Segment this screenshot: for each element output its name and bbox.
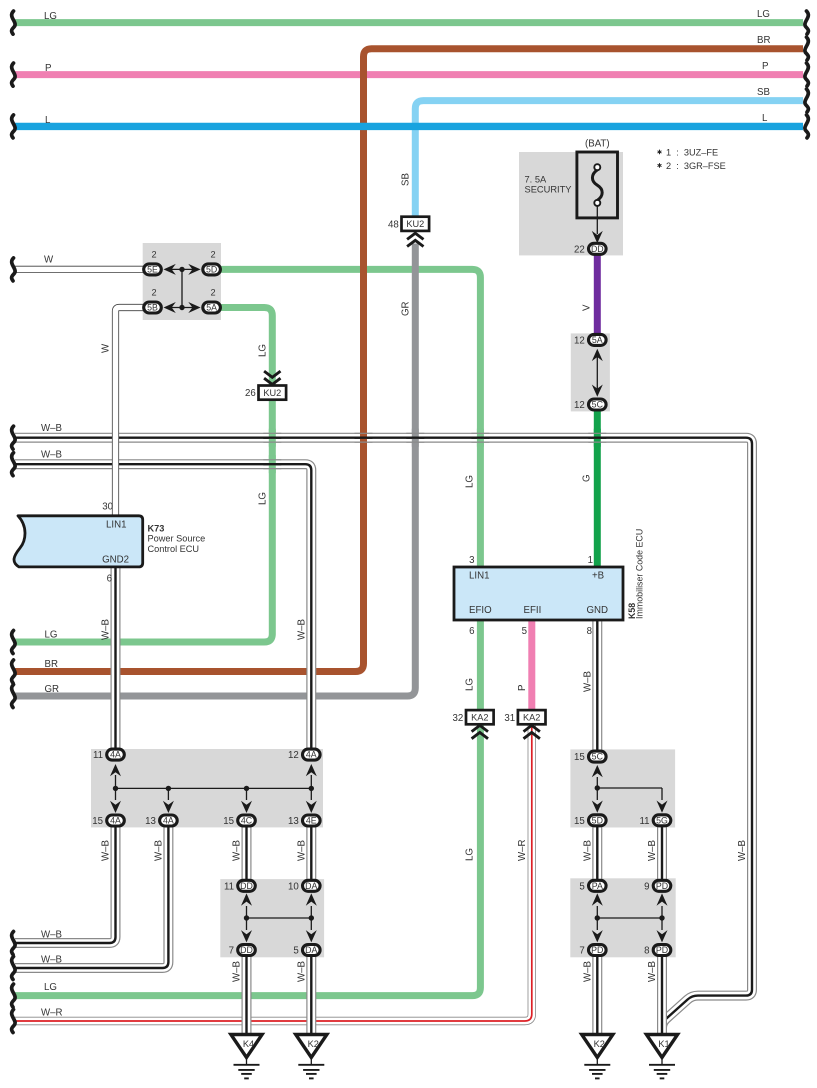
svg-text:15: 15 (574, 752, 585, 763)
svg-text:2 : 3GR–FSE: 2 : 3GR–FSE (666, 161, 726, 171)
svg-text:5: 5 (579, 881, 584, 892)
svg-text:4A: 4A (110, 750, 121, 760)
svg-text:LG: LG (464, 475, 475, 488)
svg-text:5C: 5C (592, 752, 604, 762)
svg-text:LIN1: LIN1 (106, 520, 126, 531)
svg-text:KA2: KA2 (471, 713, 488, 723)
svg-text:EFIO: EFIO (469, 605, 492, 616)
svg-text:DA: DA (305, 945, 317, 955)
svg-text:GR: GR (400, 301, 411, 316)
svg-text:Power Source: Power Source (148, 534, 206, 544)
svg-text:5C: 5C (592, 400, 604, 410)
svg-text:2: 2 (151, 249, 156, 259)
svg-text:BR: BR (757, 35, 770, 46)
svg-text:V: V (581, 304, 592, 311)
svg-text:2: 2 (211, 249, 216, 259)
svg-text:5D: 5D (592, 815, 603, 825)
svg-text:+B: +B (592, 571, 604, 582)
svg-text:12: 12 (574, 400, 585, 411)
svg-text:2: 2 (211, 288, 216, 298)
svg-text:5A: 5A (206, 303, 217, 313)
svg-text:15: 15 (223, 816, 234, 827)
svg-text:4A: 4A (110, 816, 121, 826)
svg-text:LG: LG (464, 848, 475, 861)
svg-text:LG: LG (464, 678, 475, 691)
svg-text:Control ECU: Control ECU (148, 544, 200, 554)
svg-text:PA: PA (592, 881, 603, 891)
svg-text:7: 7 (579, 946, 584, 957)
svg-text:3: 3 (469, 555, 474, 566)
svg-text:GND2: GND2 (102, 555, 129, 566)
svg-text:10: 10 (288, 881, 299, 892)
svg-text:11: 11 (639, 816, 649, 827)
svg-text:15: 15 (574, 816, 585, 827)
svg-text:P: P (762, 61, 768, 72)
svg-text:K2: K2 (308, 1039, 319, 1049)
svg-text:SB: SB (757, 87, 770, 98)
svg-text:W–B: W–B (232, 840, 243, 861)
svg-text:22: 22 (574, 244, 585, 255)
svg-text:W–B: W–B (41, 450, 62, 461)
svg-text:W–B: W–B (153, 840, 164, 861)
svg-text:LG: LG (45, 630, 58, 641)
svg-text:W–B: W–B (232, 961, 243, 982)
svg-text:4A: 4A (306, 750, 317, 760)
svg-text:P: P (45, 63, 51, 74)
svg-text:DD: DD (591, 244, 604, 254)
svg-text:LG: LG (44, 982, 57, 993)
svg-text:15: 15 (92, 816, 103, 827)
svg-text:11: 11 (224, 881, 234, 892)
svg-text:K2: K2 (594, 1039, 605, 1049)
svg-text:W–B: W–B (101, 840, 112, 861)
svg-text:7. 5A: 7. 5A (525, 175, 548, 185)
svg-text:W–B: W–B (647, 840, 658, 861)
svg-text:W–R: W–R (41, 1008, 63, 1019)
svg-text:5A: 5A (592, 335, 603, 345)
svg-text:G: G (581, 474, 592, 482)
svg-text:SECURITY: SECURITY (525, 185, 572, 195)
svg-text:K4: K4 (243, 1039, 254, 1049)
svg-text:PD: PD (656, 945, 668, 955)
svg-text:P: P (517, 685, 528, 691)
svg-text:5: 5 (522, 626, 527, 637)
svg-text:L: L (45, 115, 51, 126)
svg-text:LG: LG (757, 9, 770, 20)
svg-text:W–B: W–B (296, 961, 307, 982)
svg-text:W: W (101, 343, 112, 353)
svg-text:W–B: W–B (41, 955, 62, 966)
svg-text:5E: 5E (147, 265, 158, 275)
svg-text:4A: 4A (163, 816, 174, 826)
svg-text:LG: LG (257, 492, 268, 505)
svg-text:13: 13 (288, 816, 299, 827)
svg-text:W–B: W–B (737, 840, 748, 861)
svg-text:W–B: W–B (647, 961, 658, 982)
svg-text:4C: 4C (241, 816, 253, 826)
svg-text:W–B: W–B (296, 840, 307, 861)
svg-text:13: 13 (145, 816, 156, 827)
svg-text:7: 7 (229, 946, 234, 957)
svg-text:8: 8 (644, 946, 649, 957)
svg-text:LG: LG (44, 11, 57, 22)
svg-text:KA2: KA2 (523, 713, 540, 723)
svg-text:DA: DA (305, 881, 317, 891)
svg-text:6: 6 (107, 574, 112, 585)
svg-text:31: 31 (504, 713, 515, 724)
svg-text:PD: PD (656, 881, 668, 891)
svg-text:DD: DD (240, 945, 253, 955)
svg-text:2: 2 (151, 288, 156, 298)
svg-text:Immobiliser Code ECU: Immobiliser Code ECU (635, 529, 645, 619)
svg-text:SB: SB (400, 173, 411, 186)
svg-text:12: 12 (574, 336, 585, 347)
svg-text:5: 5 (293, 946, 298, 957)
svg-text:W: W (44, 255, 54, 266)
svg-text:4E: 4E (306, 816, 317, 826)
svg-text:PD: PD (591, 945, 603, 955)
svg-text:K1: K1 (658, 1039, 669, 1049)
svg-text:GND: GND (587, 605, 609, 616)
svg-text:8: 8 (587, 626, 592, 637)
svg-text:30: 30 (102, 502, 113, 513)
svg-text:KU2: KU2 (406, 219, 424, 229)
svg-text:LG: LG (257, 344, 268, 357)
svg-text:LIN1: LIN1 (469, 571, 489, 582)
svg-text:5G: 5G (656, 815, 668, 825)
svg-text:W–B: W–B (296, 619, 307, 640)
svg-text:5D: 5D (206, 265, 217, 275)
svg-text:32: 32 (453, 713, 464, 724)
svg-text:5B: 5B (147, 303, 158, 313)
svg-text:DD: DD (240, 881, 253, 891)
svg-text:12: 12 (288, 750, 299, 761)
svg-text:(BAT): (BAT) (585, 139, 610, 150)
svg-text:26: 26 (245, 388, 256, 399)
svg-text:W–R: W–R (517, 839, 528, 861)
svg-text:1 : 3UZ–FE: 1 : 3UZ–FE (666, 147, 718, 157)
svg-text:W–B: W–B (101, 619, 112, 640)
svg-text:KU2: KU2 (263, 388, 281, 398)
svg-text:W–B: W–B (582, 671, 593, 692)
svg-text:W–B: W–B (582, 840, 593, 861)
svg-text:9: 9 (644, 881, 649, 892)
svg-text:GR: GR (45, 684, 60, 695)
svg-text:48: 48 (388, 219, 399, 230)
svg-text:6: 6 (469, 626, 474, 637)
svg-text:1: 1 (588, 555, 593, 566)
svg-text:11: 11 (93, 750, 103, 761)
svg-text:W–B: W–B (582, 961, 593, 982)
svg-text:W–B: W–B (41, 930, 62, 941)
svg-text:W–B: W–B (41, 423, 62, 434)
svg-text:EFII: EFII (524, 605, 542, 616)
svg-text:L: L (762, 113, 768, 124)
svg-text:K73: K73 (148, 524, 165, 534)
svg-text:BR: BR (45, 659, 58, 670)
